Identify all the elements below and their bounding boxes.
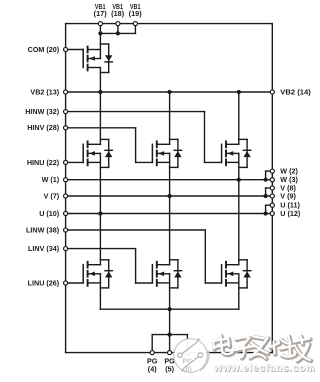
svg-text:COM (20): COM (20) (28, 45, 60, 54)
svg-text:(17): (17) (94, 9, 108, 18)
svg-text:LINU (26): LINU (26) (28, 278, 60, 287)
svg-text:LINV (34): LINV (34) (28, 244, 60, 253)
svg-text:V (7): V (7) (44, 191, 60, 200)
svg-text:VB2 (13): VB2 (13) (30, 87, 59, 96)
svg-text:PG: PG (182, 359, 193, 366)
svg-text:HINW (32): HINW (32) (25, 107, 60, 116)
svg-text:U (12): U (12) (280, 209, 301, 218)
svg-text:HINU (22): HINU (22) (27, 158, 60, 167)
svg-text:U (10): U (10) (39, 209, 60, 218)
svg-text:(4): (4) (148, 364, 157, 373)
svg-text:www.elecfans.com: www.elecfans.com (213, 363, 315, 374)
svg-text:V (9): V (9) (280, 191, 296, 200)
svg-text:HINV (28): HINV (28) (27, 123, 60, 132)
svg-text:(6): (6) (183, 366, 192, 373)
svg-text:(18): (18) (111, 9, 125, 18)
svg-text:VB2 (14): VB2 (14) (280, 87, 311, 96)
svg-text:(5): (5) (165, 364, 174, 373)
svg-text:W (1): W (1) (42, 175, 60, 184)
svg-text:(19): (19) (129, 9, 143, 18)
svg-text:LINW (38): LINW (38) (26, 225, 60, 234)
